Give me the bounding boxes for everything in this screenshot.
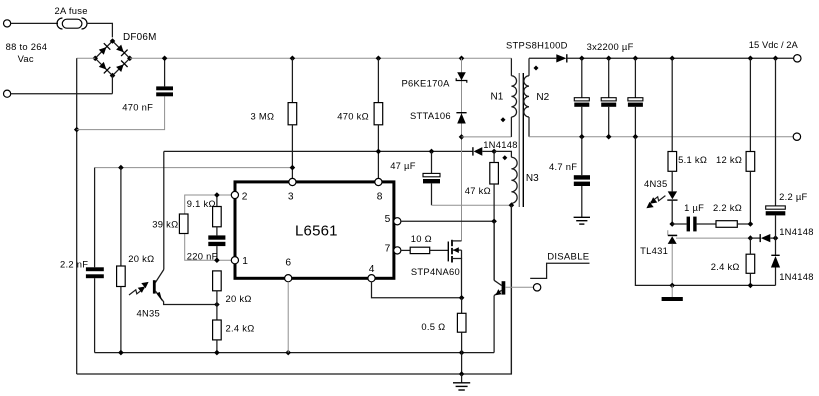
svg-text:DF06M: DF06M [123,32,157,43]
svg-text:47 kΩ: 47 kΩ [465,185,491,196]
wire: clamp column (gray) [461,58,463,241]
transformer T1 core [519,73,523,207]
svg-text:3: 3 [288,192,294,203]
node: wireB-20k [118,165,124,171]
svg-text:4.7 nF: 4.7 nF [549,161,577,172]
svg-text:15 Vdc / 2A: 15 Vdc / 2A [749,39,799,50]
svg-text:20 kΩ: 20 kΩ [128,253,154,264]
TVS P6KE170A [456,72,467,83]
node: bus-divider [214,350,220,356]
svg-text:1 µF: 1 µF [684,202,704,213]
optocoupler 4N35 LED [667,191,677,224]
wire: signal ground bus [95,352,495,354]
diode bottom-right (bottom to right) [116,64,124,72]
node: clamp-N1 junction [459,134,465,140]
diode top-right (top to right) [116,45,124,53]
fuse F1 2A [57,18,87,29]
terminal: AC input bottom [4,90,11,97]
resistor 3M [288,58,297,178]
node: wireA-47uF [429,149,435,155]
diode STPS8H100D [556,54,567,62]
transformer winding N2 [524,58,529,136]
svg-text:STP4NA60: STP4NA60 [411,266,460,277]
svg-text:220 nF: 220 nF [187,250,218,261]
svg-text:4N35: 4N35 [644,178,668,189]
svg-text:2: 2 [242,192,248,203]
svg-text:7: 7 [385,244,391,255]
ground: primary earth [453,374,470,390]
resistor 2.4k (ref divider) [746,238,755,285]
bridge rectifier DF06M [92,38,132,78]
svg-text:470 nF: 470 nF [122,101,153,112]
wire: pin 6 lead (gray) [287,282,289,353]
capacitor C2 2200uF [601,58,616,136]
svg-text:10 Ω: 10 Ω [411,233,432,244]
svg-text:L6561: L6561 [295,222,338,239]
svg-text:0.5 Ω: 0.5 Ω [421,321,445,332]
bridge vertex dots [110,38,116,44]
diode 1N4148 (horizontal) [750,234,775,242]
node: frame-470nF junction [74,127,80,133]
node: bus-0.5R [459,350,465,356]
wire: bridge left vertex to left frame [77,57,96,59]
svg-text:2.2 nF: 2.2 nF [60,258,88,269]
node: rail-2.2uF [773,56,779,62]
node: rail-3M [290,56,296,62]
node: rail-12k [748,56,754,62]
wire: 470nF bottom link (gray) [77,96,165,129]
node: wireA-pin8 [376,149,382,155]
svg-text:2.4 kΩ: 2.4 kΩ [226,323,255,334]
ground: secondary signal ground bar [662,285,683,301]
svg-text:1N4148: 1N4148 [483,139,518,150]
wire: BJT base lead (gray) [505,286,533,288]
pin 7 circle [394,247,401,254]
svg-text:1N4148: 1N4148 [779,226,814,237]
node: LED-TL431 junction [669,221,675,227]
svg-text:2.2 µF: 2.2 µF [779,191,807,202]
pin 8 circle [375,178,382,185]
svg-text:1: 1 [242,256,248,267]
svg-text:N1: N1 [491,91,504,102]
node: ref-2.4k junction [748,235,754,241]
label: 88 to 264 Vac [6,41,48,64]
wire: terminal 2 to bridge bottom [11,93,113,95]
resistor 470k [374,58,383,178]
capacitor 220nF [208,235,225,260]
svg-text:2A fuse: 2A fuse [55,5,88,16]
wire B: mult divider (gray) [95,167,293,169]
node: 2.2uF-diode junction [773,235,779,241]
wire: secondary mid rail (gray) [529,136,793,138]
node: bus-pin6 [285,350,291,356]
node: rail-470k [376,56,382,62]
node: opto emitter junction [214,302,220,308]
pin 3 circle [289,178,296,185]
node: N3 polarity dot [502,155,507,160]
node: bottom-2.4k [748,283,754,289]
wire: secondary top rail [529,57,556,59]
pin 6 circle [285,275,292,282]
resistor 47k [490,151,499,280]
resistor 0.5R sense [457,298,466,374]
capacitor 470nF [156,58,173,96]
wire: N1 bottom link (gray) [462,136,512,138]
node: rail-C1 [579,56,585,62]
op-amp IC L6561 body [235,182,394,278]
svg-text:8: 8 [377,192,383,203]
svg-text:470 kΩ: 470 kΩ [337,111,369,122]
wire: N3 bottom link (gray) [432,204,512,206]
svg-text:TL431: TL431 [640,245,668,256]
svg-text:P6KE170A: P6KE170A [402,77,451,88]
node: 2.2k-12k junction [748,221,754,227]
svg-text:9.1 kΩ: 9.1 kΩ [187,198,216,209]
node: midrail-C2 [606,134,612,140]
node: midrail-C1 [579,134,585,140]
diode top-left (left to top) [99,47,107,55]
wire: left frame vertical [76,58,78,374]
capacitor 2.2uF [766,58,786,238]
node: wireB-pin3 [290,165,296,171]
terminal: disable input [533,284,540,291]
node: frame-ground junction [459,371,465,377]
svg-text:2.2 kΩ: 2.2 kΩ [713,202,742,213]
optocoupler light arrows [129,282,149,295]
wire: gate lead [430,249,449,251]
resistor 10R [410,247,430,253]
resistor 5.1k [668,58,677,191]
capacitor 47uF (polarized) [423,151,440,205]
terminal: +15V output [794,55,801,62]
node: rail-C2 [606,56,612,62]
wire: TL431 ref (gray) [676,237,750,239]
pin 5 circle [394,218,401,225]
wire: fuse to bridge top [87,23,113,37]
capacitor 1uF [672,217,716,232]
transformer winding N3 [494,151,517,205]
optocoupler 4N35 phototransistor [153,151,217,304]
node: pin2 junction [214,192,220,198]
svg-text:1N4148: 1N4148 [779,271,814,282]
wire: secondary top rail cont [567,57,794,59]
node: wireA-47k-N3 [491,149,497,155]
svg-text:6: 6 [285,257,291,268]
pin number labels [242,192,391,276]
capacitor C3 2200uF [628,58,643,136]
svg-text:2.4 kΩ: 2.4 kΩ [711,261,740,272]
node: pin1 junction [214,257,220,263]
node: rail-470nF [162,56,168,62]
node: midrail-C3 [633,134,639,140]
ground: secondary earth [574,217,590,224]
resistor 20k (divider) [213,271,222,320]
node: N3 bottom junction [509,202,515,208]
resistor 39k [179,214,188,234]
node: rail-C3 [633,56,639,62]
capacitor C1 2200uF [574,58,589,136]
pin 2 circle [231,191,238,198]
svg-text:39 kΩ: 39 kΩ [152,218,178,229]
diode 1N4148 (aux supply) [473,147,494,156]
svg-text:47 µF: 47 µF [390,160,416,171]
wire: terminal 1 to fuse [11,22,58,24]
diode STTA106 [456,113,466,124]
wire: 2.2nF column top [94,168,96,268]
pin 4 circle [368,275,375,282]
LED light arrows [646,196,665,209]
shunt regulator TL431 [668,230,678,285]
svg-text:5.1 kΩ: 5.1 kΩ [678,154,707,165]
wire: N3 return column [510,205,512,374]
resistor 2.4k (divider) [213,320,222,353]
svg-text:12 kΩ: 12 kΩ [716,154,742,165]
svg-text:3x2200 µF: 3x2200 µF [587,41,634,52]
resistor 20k (opto load) [117,168,126,353]
pin 1 circle [231,257,238,264]
terminal: AC input top [4,20,11,27]
resistor 12k [746,58,755,224]
svg-text:88 to 264: 88 to 264 [6,41,48,52]
svg-text:STPS8H100D: STPS8H100D [506,40,568,51]
svg-text:5: 5 [385,214,391,225]
diode bottom-left (left to bottom) [99,62,107,70]
node: bottom-TL431 [669,283,675,289]
resistor 9.1k [213,195,222,235]
svg-text:4N35: 4N35 [137,308,161,319]
node: rail-clamp [459,56,465,62]
capacitor 2.2nF [86,267,104,352]
wire: primary top rail (gray) [130,57,512,59]
terminal: output return [793,133,800,140]
transistor Q2 disable BJT [494,221,505,352]
svg-text:STTA106: STTA106 [410,110,451,121]
wire: secondary return bottom [635,137,775,286]
wire A: Vcc line [164,150,473,152]
node: bus-2.2nF [118,350,124,356]
capacitor 4.7nF [574,137,590,218]
wire: pin 7 lead [401,249,410,251]
transistor Q1 STP4NA60 MOSFET [448,240,461,298]
wire: 9.1k feedback loop (gray) [185,195,232,260]
node: source junction [459,295,465,301]
svg-text:N2: N2 [536,92,549,103]
disable logic step symbol [530,263,589,278]
node: N2 polarity dot [534,66,539,71]
node: pin5-47k junction [491,219,497,225]
node: N1 polarity dot [501,117,506,122]
diode 1N4148 (vertical) [771,238,780,285]
node: rail-5.1k [669,56,675,62]
svg-text:N3: N3 [526,173,539,184]
svg-text:DISABLE: DISABLE [547,252,589,263]
svg-text:4: 4 [369,264,375,275]
svg-text:20 kΩ: 20 kΩ [226,293,252,304]
wire: bridge bottom lead [111,76,113,94]
wire: pin 5 lead [401,220,494,222]
resistor 2.2k [716,221,750,228]
svg-text:3 MΩ: 3 MΩ [251,111,275,122]
transformer winding N1 [511,58,516,137]
svg-text:Vac: Vac [18,53,34,64]
wire: bottom frame horizontal [77,205,512,374]
wire: pin 4 lead [372,282,462,298]
